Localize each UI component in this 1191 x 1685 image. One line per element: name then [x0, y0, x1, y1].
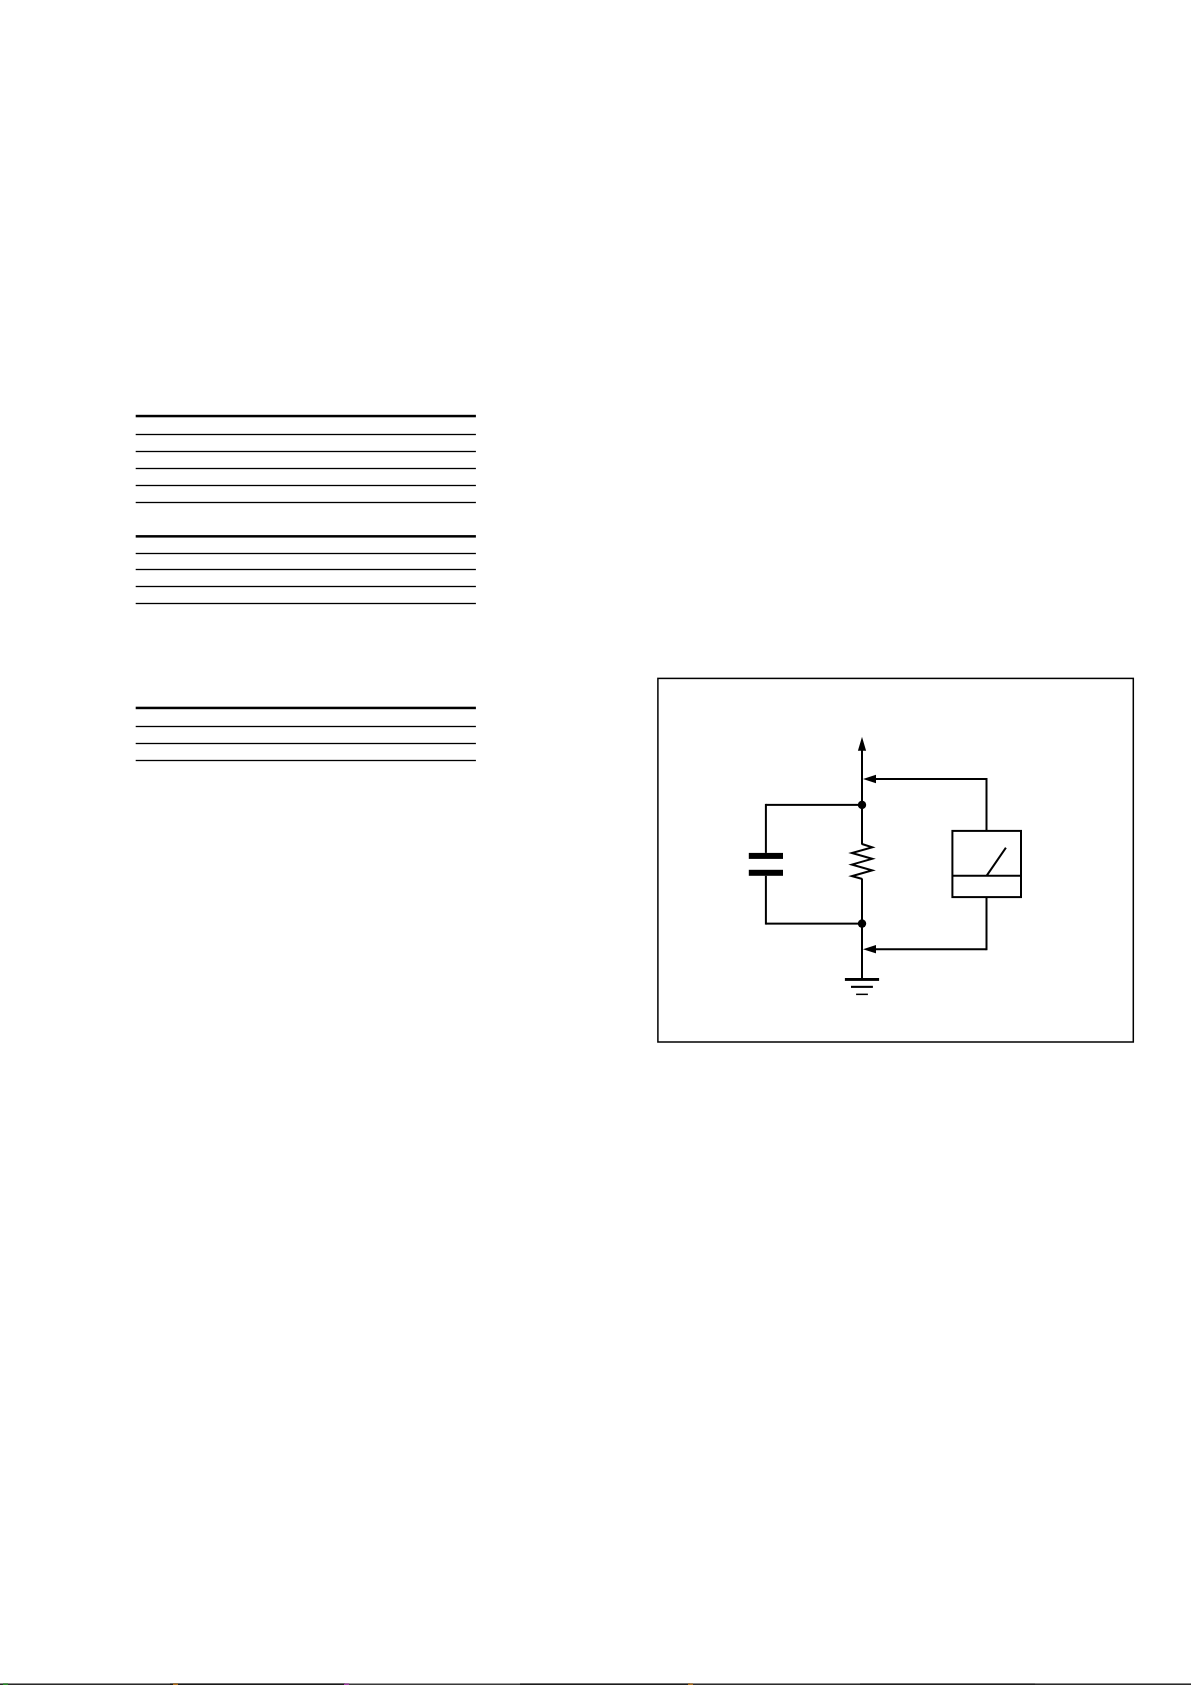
page footer color speck orange 2 [688, 1684, 693, 1685]
meter M1 body [952, 831, 1021, 897]
arrow: lower feedback arrowhead [863, 945, 876, 953]
table rule: lower table thin rule 2 [136, 743, 476, 744]
table rule: upper table thin rule 3 [136, 468, 476, 469]
resistor R1 zigzag [852, 844, 872, 879]
capacitor C1 top plate [749, 853, 783, 859]
wire: upper feedback horizontal [874, 778, 987, 780]
wire: lower feedback right vertical [986, 897, 988, 950]
node A junction dot [858, 801, 866, 809]
page footer color speck orange [173, 1684, 178, 1685]
page footer clipped text line top row [0, 1683, 170, 1684]
table rule: upper table thin rule 1 [136, 434, 476, 435]
node B junction dot [858, 919, 866, 927]
capacitor C1 bottom plate [749, 870, 783, 876]
wire: upper feedback right vertical [986, 778, 988, 831]
arrow: upper feedback arrowhead [863, 775, 876, 783]
wire: capacitor bottom lead vertical [765, 876, 767, 925]
wire: capacitor top lead vertical [765, 804, 767, 853]
table rule: upper table thin rule 2 [136, 451, 476, 452]
wire: lower feedback horizontal [874, 948, 987, 950]
table rule: upper table thin rule 7 [136, 569, 476, 570]
wire: main vertical rail upper segment [861, 749, 863, 845]
page footer clipped text line bottom row [0, 1684, 170, 1685]
page footer color speck green [3, 1684, 8, 1685]
meter M1 scale divider [952, 875, 1021, 877]
table rule: upper table thin rule 4 [136, 485, 476, 486]
table rule: lower table thin rule 3 [136, 760, 476, 761]
ground symbol bar 1 [845, 978, 879, 981]
wire: capacitor bottom to node B horizontal [766, 923, 862, 925]
ground symbol bar 2 [851, 986, 873, 988]
figure frame [658, 678, 1133, 1042]
table rule: upper table thin rule 5 [136, 502, 476, 503]
meter M1 needle [987, 848, 1006, 876]
table rule: upper table thick mid rule [136, 535, 476, 538]
page footer color speck magenta [344, 1684, 349, 1685]
table rule: lower table thin rule 1 [136, 726, 476, 727]
wire: node A to capacitor top horizontal [766, 804, 862, 806]
wire: main vertical rail lower segment [861, 879, 863, 979]
arrow: output up-arrow head [858, 737, 866, 751]
table rule: upper table thin rule 9 [136, 603, 476, 604]
table rule: lower table thick top rule [136, 707, 476, 710]
ground symbol bar 3 [856, 994, 868, 996]
table rule: upper table thick top rule [136, 415, 476, 418]
table rule: upper table thin rule 6 [136, 553, 476, 554]
table rule: upper table thin rule 8 [136, 586, 476, 587]
